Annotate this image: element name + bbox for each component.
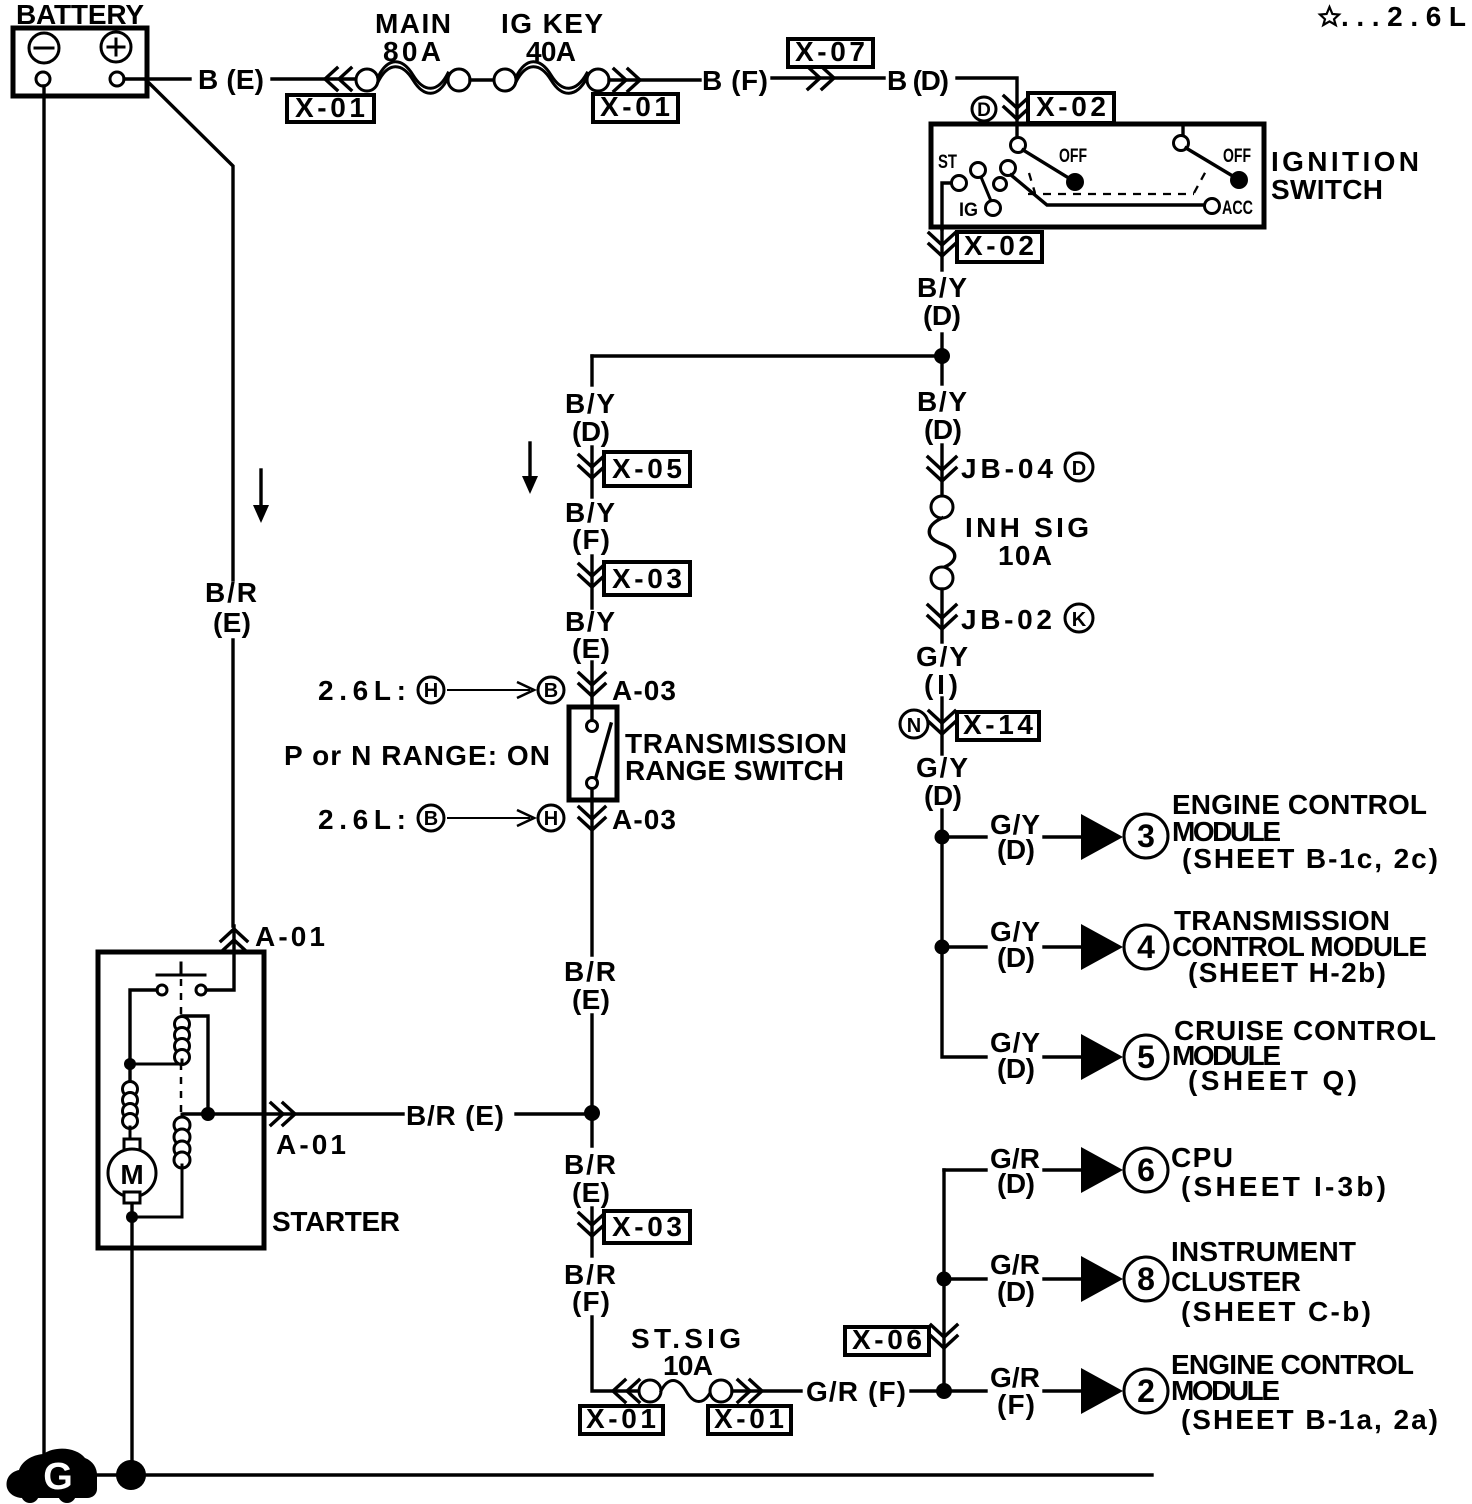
svg-text:(I): (I) bbox=[924, 669, 958, 700]
wire branch 6 bbox=[944, 1168, 1081, 1171]
wire down to ST.SIG fuse bbox=[592, 1317, 640, 1391]
svg-text:B/Y: B/Y bbox=[917, 386, 967, 417]
wire into X-05 bbox=[590, 447, 593, 497]
connector chevron X-01 fuse left bbox=[613, 1380, 639, 1402]
connector chevron X-05 bbox=[579, 455, 605, 478]
svg-text:M: M bbox=[120, 1159, 143, 1190]
svg-text:A-01: A-01 bbox=[276, 1129, 346, 1160]
arrow to module 2 bbox=[1081, 1368, 1123, 1414]
svg-text:IG: IG bbox=[959, 200, 978, 221]
svg-text:5: 5 bbox=[1137, 1039, 1155, 1075]
svg-text:(D): (D) bbox=[997, 1276, 1035, 1307]
ignition switch blade 1 bbox=[1011, 138, 1085, 192]
pin H circle row 2 bbox=[538, 805, 564, 831]
wire G/R main run bbox=[942, 1170, 945, 1391]
connector chevron A-03 bottom bbox=[579, 807, 605, 830]
connector chevron X-07 bbox=[808, 67, 834, 89]
svg-text:(D): (D) bbox=[924, 414, 962, 445]
node coil junction bbox=[124, 1058, 136, 1070]
connector chevron X-02 top bbox=[1004, 96, 1030, 119]
wire G/Y main run bbox=[942, 810, 986, 1057]
connector chevron A-01 out bbox=[271, 1103, 295, 1125]
svg-text:B (E): B (E) bbox=[198, 64, 264, 95]
wire ST to X-02 bottom bbox=[940, 229, 943, 270]
connector X-03 box lower bbox=[604, 1211, 690, 1243]
wire starter output B/R(E) bbox=[184, 1112, 588, 1115]
svg-text:10A: 10A bbox=[663, 1350, 713, 1381]
coil hold-in L3 bbox=[132, 1114, 190, 1217]
arrow to module 6 bbox=[1081, 1147, 1123, 1193]
pin H circle row 1 bbox=[418, 677, 444, 703]
arrow to module 8 bbox=[1081, 1256, 1123, 1302]
starter box bbox=[98, 952, 264, 1248]
svg-text:ST: ST bbox=[938, 152, 957, 173]
connector chevron X-01 left bbox=[325, 68, 351, 90]
svg-text:OFF: OFF bbox=[1059, 146, 1087, 167]
svg-text:JB-04: JB-04 bbox=[961, 453, 1053, 484]
pin N circle X-14 bbox=[900, 710, 928, 738]
svg-text:IG KEY: IG KEY bbox=[501, 8, 603, 39]
svg-text:X-02: X-02 bbox=[1036, 91, 1106, 122]
node starter output junction bbox=[201, 1107, 215, 1121]
wire junction to left branch bbox=[592, 354, 942, 357]
coil pull-in L1 bbox=[130, 1016, 208, 1114]
pin B circle row 1 bbox=[538, 677, 564, 703]
pin D circle bbox=[972, 97, 996, 121]
svg-text:(E): (E) bbox=[572, 633, 610, 664]
connector chevron A-01 top bbox=[221, 929, 247, 952]
connector X-01 box right bbox=[593, 91, 678, 122]
svg-text:2: 2 bbox=[1137, 1373, 1155, 1409]
node junction branch 2 bbox=[936, 1383, 952, 1399]
svg-text:B/R: B/R bbox=[205, 577, 257, 608]
svg-text:(SHEET C-b): (SHEET C-b) bbox=[1181, 1296, 1371, 1327]
svg-text:80A: 80A bbox=[383, 36, 441, 67]
transmission range switch S1 bbox=[569, 707, 617, 800]
wire branch 2 bbox=[944, 1389, 1081, 1392]
svg-text:INSTRUMENT: INSTRUMENT bbox=[1171, 1236, 1356, 1267]
wire A-01 into solenoid contact bbox=[206, 926, 234, 990]
svg-text:6: 6 bbox=[1137, 1152, 1155, 1188]
svg-text:CPU: CPU bbox=[1171, 1142, 1233, 1173]
connector X-02 box bottom bbox=[957, 230, 1042, 262]
wire left column from junction bbox=[590, 356, 593, 385]
module circle 2 bbox=[1124, 1369, 1168, 1413]
ACC contact blade bbox=[994, 161, 1220, 214]
svg-text:(D): (D) bbox=[997, 1053, 1035, 1084]
svg-text:K: K bbox=[1072, 609, 1087, 631]
wire B(E) to MAIN fuse bbox=[272, 77, 356, 80]
wire into A-03 top bbox=[590, 662, 593, 721]
module circle 5 bbox=[1124, 1035, 1168, 1079]
node junction B/Y bbox=[934, 348, 950, 364]
connector chevron JB-04 bbox=[928, 457, 956, 481]
svg-text:A-01: A-01 bbox=[255, 921, 325, 952]
svg-text:4: 4 bbox=[1137, 929, 1155, 965]
svg-text:SWITCH: SWITCH bbox=[1271, 174, 1383, 205]
svg-text:(E): (E) bbox=[213, 607, 251, 638]
svg-text:X-01: X-01 bbox=[586, 1403, 656, 1434]
ignition switch blade 2 bbox=[1174, 124, 1249, 189]
solenoid contacts bbox=[157, 963, 206, 995]
svg-text:X-02: X-02 bbox=[964, 230, 1034, 261]
module circle 3 bbox=[1124, 814, 1168, 858]
svg-text:(E): (E) bbox=[572, 984, 610, 1015]
connector chevron JB-02 bbox=[928, 605, 956, 629]
battery B1 bbox=[13, 28, 147, 96]
fuse ST.SIG bbox=[639, 1380, 732, 1402]
svg-text:B/R (E): B/R (E) bbox=[406, 1100, 504, 1131]
svg-text:MODULE: MODULE bbox=[1171, 1375, 1280, 1406]
svg-text:B (D): B (D) bbox=[887, 65, 949, 96]
wire branch 5 bbox=[1044, 1055, 1081, 1058]
connector chevron X-06 bbox=[931, 1325, 957, 1348]
wire contact to field bbox=[130, 990, 157, 1083]
dashed travel path bbox=[1028, 171, 1206, 194]
connector chevron X-03 lower bbox=[579, 1213, 605, 1236]
svg-text:(D): (D) bbox=[997, 834, 1035, 865]
svg-text:X-03: X-03 bbox=[612, 1211, 682, 1242]
node junction branch 8 bbox=[937, 1272, 952, 1287]
connector chevron fuse right bbox=[738, 1380, 762, 1402]
svg-text:X-01: X-01 bbox=[295, 92, 365, 123]
ground symbol G car body bbox=[7, 1449, 97, 1503]
svg-text:(SHEET B-1c, 2c): (SHEET B-1c, 2c) bbox=[1182, 843, 1438, 874]
ignition switch box bbox=[931, 124, 1264, 227]
svg-text:(E): (E) bbox=[572, 1177, 610, 1208]
connector chevron X-14 bbox=[929, 711, 955, 734]
wire branch 4 bbox=[942, 945, 1081, 948]
svg-text:X-07: X-07 bbox=[795, 36, 865, 67]
connector X-03 box bbox=[604, 562, 690, 595]
svg-text:B/R: B/R bbox=[564, 1149, 616, 1180]
wire field coil to motor bbox=[129, 1127, 132, 1139]
wire into JB-04 bbox=[940, 445, 943, 496]
svg-text:(F): (F) bbox=[572, 524, 610, 555]
node junction branch 4 bbox=[935, 940, 950, 955]
svg-text:STARTER: STARTER bbox=[272, 1206, 400, 1237]
wire below TRS bbox=[590, 789, 593, 955]
solenoid plunger dashed bbox=[180, 979, 183, 1115]
svg-text:(F): (F) bbox=[572, 1286, 610, 1317]
connector X-07 box bbox=[788, 36, 873, 67]
module circle 6 bbox=[1124, 1148, 1168, 1192]
wire into X-03 lower bbox=[590, 1208, 593, 1256]
star 2.6L note bbox=[1320, 1, 1466, 32]
svg-text:(SHEET Q): (SHEET Q) bbox=[1188, 1065, 1357, 1096]
arrow to module 4 bbox=[1081, 924, 1123, 970]
svg-text:B/Y: B/Y bbox=[565, 388, 615, 419]
node ground junction bbox=[116, 1460, 146, 1490]
IG contact pair bbox=[971, 163, 1001, 216]
wire into X-03 bbox=[590, 556, 593, 608]
svg-text:B: B bbox=[424, 808, 438, 830]
pin K circle JB-02 bbox=[1065, 604, 1093, 632]
fuse MAIN 80A bbox=[356, 62, 470, 94]
connector X-06 box bbox=[845, 1324, 929, 1355]
svg-text:10A: 10A bbox=[998, 540, 1052, 571]
svg-text:MAIN: MAIN bbox=[375, 8, 451, 39]
svg-text:X-01: X-01 bbox=[600, 91, 670, 122]
wire battery positive to starter bbox=[146, 80, 233, 926]
svg-text:X-03: X-03 bbox=[612, 563, 682, 594]
svg-text:X-01: X-01 bbox=[714, 1403, 784, 1434]
svg-text:H: H bbox=[424, 680, 438, 702]
svg-text:B/R: B/R bbox=[564, 956, 616, 987]
coil field L2 bbox=[123, 1082, 138, 1129]
ST terminal bbox=[942, 176, 967, 230]
wire battery negative to ground bbox=[42, 86, 45, 1460]
wire B(F) to B(D) bbox=[772, 76, 884, 79]
svg-text:N: N bbox=[907, 715, 921, 737]
connector X-02 box top bbox=[1028, 91, 1114, 123]
svg-text:B (F): B (F) bbox=[702, 65, 768, 96]
flow arrow left bbox=[253, 470, 269, 523]
connector X-01 box fuse left bbox=[580, 1403, 663, 1434]
svg-text:G: G bbox=[43, 1456, 73, 1498]
svg-text:B/Y: B/Y bbox=[917, 272, 967, 303]
svg-text:8: 8 bbox=[1137, 1261, 1155, 1297]
svg-text:INH SIG: INH SIG bbox=[965, 512, 1089, 543]
svg-text:X-05: X-05 bbox=[612, 453, 682, 484]
connector X-05 box bbox=[604, 452, 690, 486]
connector X-01 box left bbox=[287, 92, 374, 123]
connector chevron X-03 bbox=[579, 564, 605, 587]
arrow to module 5 bbox=[1081, 1034, 1123, 1080]
svg-text:A-03: A-03 bbox=[612, 675, 676, 706]
pin B circle row 2 bbox=[418, 805, 444, 831]
wire branch 3 bbox=[942, 835, 1081, 838]
connector chevron X-01 right bbox=[614, 69, 640, 91]
pin D circle JB-04 bbox=[1065, 453, 1093, 481]
arrow to module 3 bbox=[1081, 814, 1123, 860]
motor M bbox=[108, 1139, 156, 1203]
wire below fuse bbox=[940, 589, 943, 642]
svg-text:B: B bbox=[544, 680, 558, 702]
wire G/R(F) to junction bbox=[911, 1389, 944, 1392]
svg-text:D: D bbox=[1072, 458, 1086, 480]
node motor junction bbox=[126, 1211, 138, 1223]
module circle 4 bbox=[1124, 925, 1168, 969]
svg-text:CLUSTER: CLUSTER bbox=[1171, 1266, 1301, 1297]
svg-text:G/R (F): G/R (F) bbox=[806, 1376, 906, 1407]
svg-text:RANGE SWITCH: RANGE SWITCH bbox=[625, 755, 844, 786]
svg-text:(SHEET B-1a, 2a): (SHEET B-1a, 2a) bbox=[1181, 1404, 1438, 1435]
svg-text:(D): (D) bbox=[997, 942, 1035, 973]
node junction branch 3 bbox=[935, 830, 950, 845]
connector X-14 box bbox=[957, 709, 1039, 740]
svg-text:X-14: X-14 bbox=[963, 709, 1033, 740]
wire branch 8 bbox=[944, 1277, 1081, 1280]
svg-text:(D): (D) bbox=[572, 416, 610, 447]
svg-text:OFF: OFF bbox=[1223, 146, 1251, 167]
fuse INH SIG 10A bbox=[929, 496, 955, 589]
svg-text:D: D bbox=[977, 100, 991, 121]
connector chevron A-03 top bbox=[579, 673, 605, 696]
svg-text:(D): (D) bbox=[997, 1168, 1035, 1199]
wire between fuses bbox=[470, 78, 494, 81]
svg-text:G/Y: G/Y bbox=[916, 641, 968, 672]
wire motor to ground bbox=[130, 1204, 133, 1470]
connector X-01 box fuse right bbox=[708, 1403, 791, 1434]
connector chevron X-02 bottom bbox=[929, 233, 955, 256]
wire to BR junction bbox=[590, 1015, 593, 1146]
svg-text:ACC: ACC bbox=[1222, 198, 1253, 219]
svg-text:3: 3 bbox=[1137, 818, 1155, 854]
svg-text:(D): (D) bbox=[923, 300, 961, 331]
wire fuse to G/R(F) bbox=[732, 1389, 801, 1392]
svg-text:(F): (F) bbox=[997, 1389, 1035, 1420]
wire B(D) to ignition switch bbox=[957, 78, 1017, 138]
wire battery positive B(E) bbox=[124, 77, 190, 80]
arrow H to B bbox=[447, 682, 534, 698]
svg-text:P or N RANGE: ON: P or N RANGE: ON bbox=[284, 740, 550, 771]
svg-text:JB-02: JB-02 bbox=[961, 604, 1052, 635]
svg-text:H: H bbox=[544, 808, 558, 830]
svg-text:A-03: A-03 bbox=[612, 804, 676, 835]
flow arrow mid bbox=[522, 443, 538, 494]
module circle 8 bbox=[1124, 1257, 1168, 1301]
svg-text:(D): (D) bbox=[924, 780, 962, 811]
svg-text:40A: 40A bbox=[526, 36, 576, 67]
svg-text:G/Y: G/Y bbox=[916, 752, 968, 783]
wire fuse to B(F) bbox=[609, 78, 700, 81]
arrow B to H bbox=[447, 810, 534, 826]
wire ground bus bbox=[80, 1473, 1152, 1476]
wire into X-14 bbox=[940, 698, 943, 754]
wire to junction bbox=[940, 334, 943, 384]
node junction B/R bbox=[584, 1105, 600, 1121]
svg-text:X-06: X-06 bbox=[852, 1324, 922, 1355]
fuse IG KEY 40A bbox=[494, 62, 609, 94]
